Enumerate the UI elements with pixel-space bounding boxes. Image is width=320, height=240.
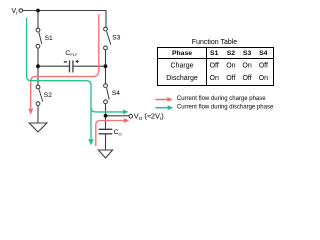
svg-text:S3: S3 <box>243 50 252 57</box>
table frame <box>158 48 274 86</box>
svg-text:Off: Off <box>226 75 235 82</box>
svg-text:On: On <box>226 63 235 70</box>
switch S1 <box>36 28 42 48</box>
discharge current arrowhead to VO <box>123 110 129 115</box>
label CFLY minus <box>64 61 67 63</box>
table separator vertical <box>206 48 208 86</box>
node junction top <box>36 9 40 13</box>
wire output node to CO <box>105 116 107 129</box>
svg-text:Phase: Phase <box>172 50 192 57</box>
wire left branch S1 to CFLY node <box>37 48 39 85</box>
node junction output <box>104 114 108 118</box>
svg-text:S3: S3 <box>112 34 120 41</box>
wire left branch top <box>37 11 39 29</box>
svg-text:Current flow during charge pha: Current flow during charge phase <box>177 96 266 102</box>
svg-text:S4: S4 <box>259 50 268 57</box>
label CFLY plus <box>76 60 79 63</box>
svg-text:VO (≈2VI): VO (≈2VI) <box>134 112 164 121</box>
node junction CFLY right <box>104 64 108 68</box>
wire CFLY right <box>73 65 105 67</box>
svg-text:Off: Off <box>210 63 219 70</box>
ground right <box>98 150 112 158</box>
ground left <box>29 123 47 132</box>
charge current path red <box>31 14 99 108</box>
capacitor CFLY plates <box>70 60 73 72</box>
svg-text:On: On <box>242 63 251 70</box>
wire CO to ground <box>105 134 107 150</box>
wire left branch S2 to ground <box>37 106 39 123</box>
table header underline <box>158 58 274 60</box>
charge current arrowhead into ground <box>28 108 33 114</box>
svg-text:Off: Off <box>242 75 251 82</box>
svg-text:Current flow during discharge: Current flow during discharge phase <box>177 104 274 110</box>
svg-text:Discharge: Discharge <box>166 75 198 82</box>
switch S4 <box>104 84 110 104</box>
svg-text:Charge: Charge <box>171 63 194 70</box>
svg-text:Function Table: Function Table <box>192 39 238 46</box>
wire right branch S3 to S4 <box>105 50 107 84</box>
charge current path red CO to VO <box>96 121 124 147</box>
switch S2 <box>36 85 43 105</box>
legend discharge arrow <box>155 105 173 110</box>
wire right branch S4 to output node <box>105 104 107 116</box>
wire CFLY left <box>38 65 69 67</box>
svg-text:S2: S2 <box>227 50 236 57</box>
svg-text:S2: S2 <box>44 92 52 99</box>
node junction CFLY left <box>36 64 40 68</box>
svg-text:S1: S1 <box>45 35 53 42</box>
svg-text:S4: S4 <box>112 90 120 97</box>
discharge current path green <box>27 18 123 140</box>
terminal VO <box>129 114 133 118</box>
capacitor CO plates <box>99 129 113 134</box>
terminal VI <box>19 9 23 13</box>
switch S3 <box>104 27 111 50</box>
discharge current arrowhead into CO <box>88 139 94 145</box>
charge current arrowhead to VO <box>124 118 130 123</box>
svg-text:S1: S1 <box>210 50 219 57</box>
wire top rail VI to right branch <box>23 11 106 28</box>
svg-text:Off: Off <box>259 63 268 70</box>
svg-text:On: On <box>259 75 268 82</box>
legend charge arrow <box>155 97 173 102</box>
wire output to VO terminal <box>106 115 130 117</box>
svg-text:On: On <box>210 75 219 82</box>
